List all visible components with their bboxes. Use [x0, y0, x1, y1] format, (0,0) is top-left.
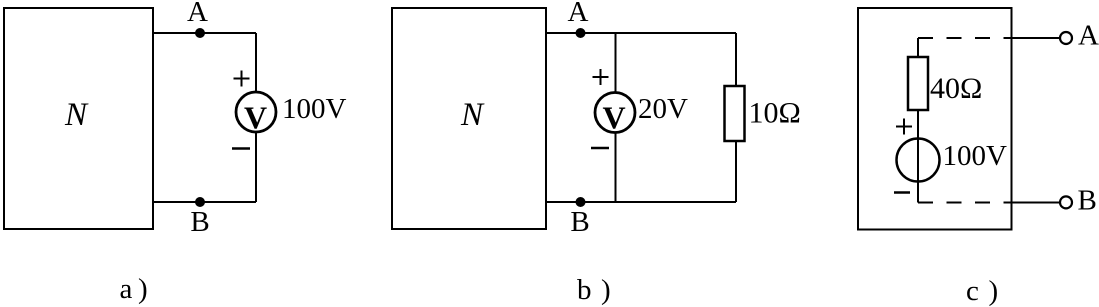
svg-text:20V: 20V: [638, 93, 688, 125]
svg-text:B: B: [1078, 185, 1097, 217]
svg-text:a: a: [120, 273, 133, 305]
svg-text:V: V: [602, 100, 625, 136]
svg-text:): ): [138, 273, 148, 305]
svg-text:): ): [601, 274, 611, 306]
svg-text:100V: 100V: [282, 93, 347, 125]
svg-text:A: A: [187, 0, 208, 28]
svg-text:100V: 100V: [943, 140, 1008, 172]
svg-text:c: c: [966, 275, 979, 307]
svg-text:10Ω: 10Ω: [749, 97, 801, 130]
svg-text:): ): [989, 275, 999, 307]
svg-text:b: b: [577, 274, 592, 306]
svg-text:N: N: [64, 97, 89, 133]
svg-text:A: A: [1078, 20, 1099, 52]
svg-text:40Ω: 40Ω: [930, 72, 982, 105]
svg-text:A: A: [568, 0, 589, 28]
svg-text:N: N: [460, 97, 485, 133]
svg-text:V: V: [244, 100, 267, 136]
svg-text:B: B: [570, 206, 589, 238]
svg-text:B: B: [190, 206, 209, 238]
